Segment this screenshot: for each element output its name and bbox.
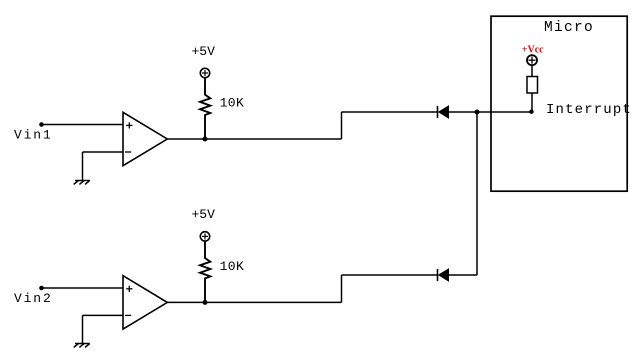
node Vin1 (input terminal dot) — [39, 122, 44, 127]
Micro box — [491, 16, 627, 191]
diode D2 (cathode bar + triangle) — [438, 269, 449, 281]
op-amp comparator U1 — [123, 112, 167, 165]
node Vin2 (input terminal dot) — [39, 286, 44, 291]
wire vertical bus to row2 — [476, 112, 478, 275]
wire D2 to vertical bus — [449, 274, 477, 276]
wire row1 to diode D1 — [342, 111, 438, 113]
svg-text:+Vcc: +Vcc — [522, 44, 544, 55]
U1 - pin mark — [125, 151, 131, 153]
wire R3 to Interrupt node — [531, 93, 533, 112]
svg-text:10K: 10K — [220, 259, 245, 274]
wire Vin2 to comparator U2 + input — [42, 287, 124, 289]
power symbol +5V circle (row 1) — [200, 68, 209, 77]
svg-text:+5V: +5V — [192, 207, 216, 222]
wire step up row1 — [341, 112, 343, 139]
svg-text:10K: 10K — [220, 96, 245, 111]
wire Vin1 to comparator U1 + input — [42, 124, 124, 126]
wire Vcc to R3 — [531, 65, 533, 76]
wire U2 - input down to ground — [82, 315, 84, 343]
node output U1 / R1 junction — [203, 137, 208, 142]
resistor R1 10K (pull-up, row 1) — [200, 78, 210, 139]
op-amp comparator U2 — [123, 276, 167, 329]
wire U2 - input horizontal — [83, 314, 124, 316]
resistor R3 (box style, in Micro) — [527, 77, 538, 94]
wire D1 to Interrupt node — [449, 111, 532, 113]
node bus junction (row1) — [475, 110, 480, 115]
power symbol +Vcc circle — [527, 55, 537, 65]
wire U1 - input down to ground — [82, 152, 84, 181]
U2 + pin mark — [126, 286, 132, 292]
wire step up row2 — [341, 275, 343, 302]
U2 - pin mark — [125, 314, 131, 316]
wire U1 - input horizontal — [83, 151, 124, 153]
svg-text:Vin1: Vin1 — [14, 128, 53, 143]
U1 + pin mark — [126, 122, 132, 128]
wire U2 output horizontal — [167, 301, 341, 303]
resistor R2 10K (pull-up, row 2) — [200, 241, 210, 302]
wire U1 output horizontal — [167, 138, 341, 140]
power symbol +5V circle (row 2) — [200, 232, 209, 241]
node output U2 / R2 junction — [203, 300, 208, 305]
svg-text:Interrupt: Interrupt — [546, 102, 632, 118]
wire row2 to diode D2 — [342, 274, 438, 276]
ground GND2 — [74, 344, 90, 348]
svg-text:Vin2: Vin2 — [14, 291, 53, 306]
svg-text:+5V: +5V — [192, 44, 216, 59]
svg-text:Micro: Micro — [544, 20, 594, 36]
ground GND1 — [74, 181, 90, 185]
node Interrupt — [529, 110, 533, 114]
diode D1 (cathode bar + triangle) — [438, 106, 449, 118]
